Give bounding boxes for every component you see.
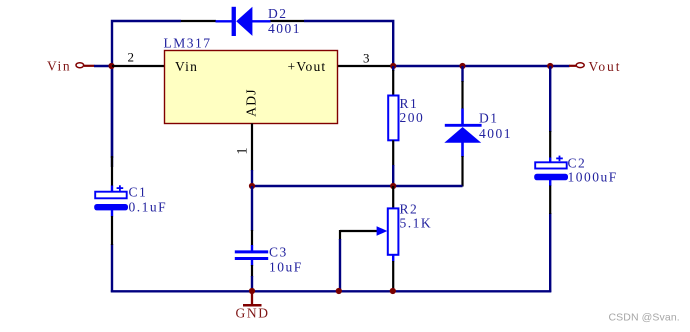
capacitor C1 (94, 156, 128, 245)
wire ADJ horizontal (252, 185, 463, 187)
junction output at R1 (390, 63, 396, 69)
wire pin1 to ADJ node (251, 170, 253, 187)
junction at Vin node (108, 63, 114, 69)
svg-text:D2: D2 (268, 6, 288, 21)
svg-text:+Vout: +Vout (288, 59, 327, 74)
capacitor C3 (235, 186, 268, 291)
svg-text:C1: C1 (129, 185, 148, 200)
resistor R2 potentiometer (388, 186, 399, 290)
wire left rail lower (111, 244, 113, 292)
svg-text:LM317: LM317 (164, 36, 212, 51)
svg-text:1: 1 (235, 147, 251, 154)
junction ADJ at R2 (390, 183, 396, 189)
svg-text:R1: R1 (400, 96, 419, 111)
pin 1 wire (ADJ) (251, 124, 253, 172)
svg-text:C3: C3 (269, 245, 288, 260)
svg-text:D1: D1 (479, 110, 499, 125)
svg-text:10uF: 10uF (269, 260, 303, 275)
svg-text:5.1K: 5.1K (400, 215, 433, 230)
junction ground at wiper (336, 288, 342, 294)
svg-text:Vin: Vin (175, 59, 198, 74)
svg-text:CSDN @Svan.: CSDN @Svan. (609, 312, 680, 324)
port Vout (569, 59, 621, 74)
resistor R1 (388, 66, 398, 187)
capacitor C2 (534, 66, 568, 214)
wire output rail (393, 65, 569, 67)
junction output at D1 (459, 63, 465, 69)
R2 wiper arrow (340, 226, 387, 240)
wire right rail (C2 to ground) (549, 213, 551, 292)
pin 2 wire (112, 65, 165, 67)
junction ADJ at C3 (249, 183, 255, 189)
diode D2 right pin (270, 20, 304, 22)
svg-text:3: 3 (363, 50, 370, 65)
junction output at C2 (547, 63, 553, 69)
wire bottom ground rail (111, 290, 551, 292)
svg-text:Vout: Vout (589, 59, 622, 74)
diode D2 left pin (181, 20, 216, 22)
wire Vin to junction (94, 65, 112, 67)
pin 3 wire (337, 65, 393, 67)
svg-text:C2: C2 (568, 155, 587, 170)
svg-text:4001: 4001 (268, 21, 301, 36)
svg-text:ADJ: ADJ (243, 88, 258, 116)
svg-text:2: 2 (128, 50, 135, 65)
diode D1 (444, 66, 481, 187)
wire wiper to ground rail (339, 239, 341, 291)
svg-text:Vin: Vin (47, 58, 71, 73)
svg-text:1000uF: 1000uF (568, 169, 618, 184)
ground symbol GND (236, 291, 270, 321)
svg-text:4001: 4001 (479, 126, 512, 141)
wire top rail left segment (112, 21, 181, 167)
port Vin (47, 58, 95, 73)
svg-text:200: 200 (400, 110, 425, 125)
op-amp U1 LM317 regulator box (165, 51, 338, 124)
junction ground at R2 (390, 288, 396, 294)
junction ground at C3 (249, 288, 255, 294)
svg-text:0.1uF: 0.1uF (129, 199, 168, 214)
wire left rail upper (Vin rail) (111, 64, 113, 158)
svg-text:GND: GND (236, 306, 270, 321)
diode D2 body (216, 7, 271, 36)
wire top rail right segment (304, 21, 393, 65)
